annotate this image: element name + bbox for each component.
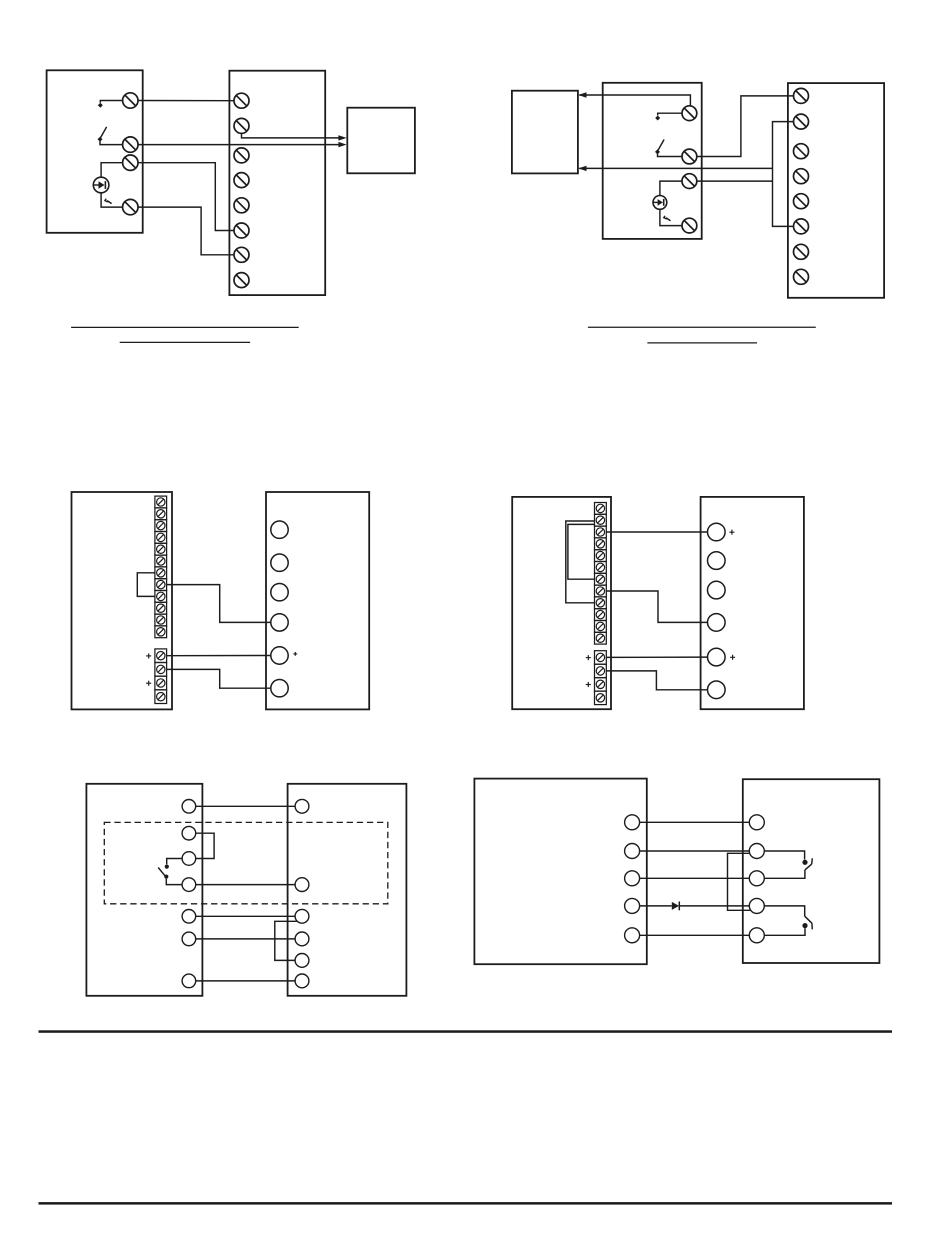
label + (power terminal 1) <box>586 655 591 660</box>
keypad circle terminal 2 <box>271 554 288 571</box>
wire: L5 to R5 <box>640 934 750 936</box>
caption underline (top-left, line 2) <box>120 341 250 343</box>
panel lower strip terminal cell 2 <box>155 663 167 677</box>
block terminal screw 8 <box>234 273 249 288</box>
switch 2 fixed contact dot <box>802 923 807 928</box>
device circle terminal R5 <box>749 928 764 943</box>
controller box (bottom-right diagram) <box>474 779 646 965</box>
panel upper strip terminal cell 12 <box>595 632 607 644</box>
controller circle terminal R4 <box>295 932 309 946</box>
wire: contact stub T1 <box>658 113 682 115</box>
panel upper strip terminal cell 10 <box>595 609 607 621</box>
block terminal screw 2 <box>234 118 249 133</box>
block terminal screw 1 <box>794 88 809 103</box>
keypad circle terminal 4 <box>708 614 726 632</box>
wire: switch to L4 <box>166 879 182 885</box>
switch fixed contact dot <box>165 865 169 869</box>
LED D1 indicator <box>93 177 109 193</box>
contact diamond of switch SW1 <box>98 137 103 142</box>
switch SW1 blade <box>100 127 107 139</box>
wire: L3 to R3 <box>640 877 750 879</box>
panel lower strip terminal cell 4 <box>595 691 607 705</box>
panel upper strip terminal cell 4 <box>595 538 607 550</box>
device circle terminal L2 <box>182 826 196 840</box>
block terminal screw 7 <box>794 244 809 259</box>
controller circle terminal R2 <box>295 878 309 892</box>
wire: device T4 to block T7 <box>138 207 234 255</box>
outer jumper wire: strip cell 2 to cell 9 <box>566 521 595 603</box>
keypad box <box>701 497 804 709</box>
arrowhead into power supply (top) <box>578 92 586 97</box>
terminal screw 3 (device) <box>123 155 138 170</box>
panel upper strip terminal cell 6 <box>595 562 607 574</box>
keypad circle terminal 6 <box>708 681 726 699</box>
device circle terminal L3 <box>182 852 196 866</box>
wire: common vertical net to block T2 and T6 <box>773 122 794 227</box>
panel upper strip terminal cell 3 <box>595 526 607 538</box>
keypad circle terminal 5 <box>708 648 726 666</box>
device circle terminal R1 <box>749 815 764 830</box>
device circle terminal L5 <box>182 910 196 924</box>
block terminal screw 2 <box>794 114 809 129</box>
power supply box <box>347 108 415 174</box>
panel upper strip terminal cell 11 <box>155 614 167 626</box>
wire: strip cell 3 to keypad circle 1 <box>606 531 707 533</box>
wire: strip cell 8 to keypad circle 4 <box>167 585 271 623</box>
device terminal screw 2 <box>682 149 697 164</box>
wire: device T1 to power supply <box>579 95 690 106</box>
wire: L1 to R1 <box>640 821 750 823</box>
keypad circle terminal 1 <box>271 521 288 538</box>
block terminal screw 1 <box>234 93 249 108</box>
wire: SW1 to device T2 <box>658 153 683 156</box>
terminal screw 2 (device) <box>123 137 138 152</box>
contact diamond of SW1 <box>655 149 660 154</box>
panel upper strip terminal cell 9 <box>595 597 607 609</box>
panel upper strip terminal cell 3 <box>155 520 167 532</box>
wire: LED cathode to terminal 4 <box>101 192 123 207</box>
controller circle terminal R6 <box>295 974 309 988</box>
wire: switch 2 to R5 <box>764 928 805 935</box>
keypad circle terminal 3 <box>271 584 288 601</box>
wire: R2 to tamper switch 1 <box>764 851 804 860</box>
panel lower strip terminal cell 4 <box>155 690 167 704</box>
panel lower strip terminal cell 1 <box>595 651 607 665</box>
control panel box (mid-right diagram) <box>512 497 611 709</box>
switch 2 blade <box>805 916 812 923</box>
jumper wire: R2 to R4 <box>728 853 751 910</box>
panel upper strip terminal cell 12 <box>155 626 167 638</box>
keypad circle terminal 2 <box>708 552 726 570</box>
switch moving contact dot <box>164 875 168 879</box>
device terminal screw 3 <box>682 174 697 189</box>
controller circle terminal L1 <box>625 815 640 830</box>
panel upper strip terminal cell 2 <box>155 508 167 520</box>
arrowhead into power supply (bottom) <box>578 166 586 171</box>
block terminal screw 5 <box>794 194 809 209</box>
block terminal screw 4 <box>234 173 249 188</box>
panel lower strip terminal cell 3 <box>155 676 167 690</box>
panel upper strip terminal cell 5 <box>155 543 167 555</box>
controller circle terminal L2 <box>625 844 640 859</box>
wire: block T2 jog to power supply <box>242 133 339 138</box>
device box <box>743 779 880 963</box>
controller circle terminal L3 <box>625 871 640 886</box>
wire: power + to keypad circle 5 <box>606 656 707 658</box>
device circle terminal R2 <box>749 844 764 859</box>
arrowhead into power supply (upper) <box>338 135 346 140</box>
wire: L2 to R2 <box>640 850 750 852</box>
wire: L5 to R3 <box>196 915 295 917</box>
LED light emission marks <box>663 216 670 221</box>
control module terminal block box <box>229 71 325 295</box>
wire: L1 to R1 <box>196 805 295 807</box>
tamper switch blade <box>158 868 165 877</box>
dashed option boundary <box>104 822 388 903</box>
controller circle terminal R1 <box>295 799 309 813</box>
control panel box (mid-left diagram) <box>72 492 173 709</box>
block terminal screw 3 <box>794 144 809 159</box>
wire: device T3 to common net <box>697 180 773 182</box>
horizontal rule (lower) <box>39 1202 893 1205</box>
device terminal screw 1 <box>682 106 697 121</box>
caption underline (top-left, line 1) <box>71 326 299 328</box>
wire: SW1 to terminal 2 <box>100 141 123 145</box>
panel upper strip terminal cell 1 <box>595 503 607 515</box>
inner jumper wire: strip cell 2 to cell 7 <box>568 524 595 579</box>
label + (power terminal 3) <box>146 681 151 686</box>
device circle terminal R4 <box>749 898 764 913</box>
panel upper strip terminal cell 8 <box>595 585 607 597</box>
wire: L4 to R2 <box>196 884 295 886</box>
label + (power terminal 3) <box>586 682 591 687</box>
device circle terminal R3 <box>749 871 764 886</box>
wire: switch 1 to R3 <box>764 870 805 878</box>
panel upper strip terminal cell 8 <box>155 579 167 591</box>
panel upper strip terminal cell 6 <box>155 555 167 567</box>
controller circle terminal L4 <box>625 898 640 913</box>
power supply box (top-right diagram) <box>512 91 578 174</box>
label + (power terminal 1) <box>146 653 151 658</box>
panel lower strip terminal cell 1 <box>155 649 167 663</box>
LED D1 indicator <box>653 196 667 210</box>
wire: device T1 to block T1 <box>138 100 234 102</box>
controller circle terminal R3 <box>295 909 309 923</box>
jumper wire: R3 to R5 <box>275 921 297 960</box>
exit device box (top-left diagram) <box>47 70 143 233</box>
LED light emission marks <box>104 199 111 204</box>
device circle terminal L6 <box>182 932 196 946</box>
block terminal screw 6 <box>794 219 809 234</box>
caption underline (top-right, line 2) <box>647 342 757 344</box>
block terminal screw 6 <box>234 223 249 238</box>
wire: power + to keypad circle 5 <box>167 655 271 657</box>
wire: R4 to tamper switch 2 <box>764 906 804 916</box>
wire: device T2 through block to power supply <box>138 144 339 146</box>
wire: device T3 to block T6 <box>138 163 234 231</box>
panel upper strip terminal cell 9 <box>155 591 167 603</box>
wire: switch contact to terminal 1 <box>100 101 122 103</box>
panel upper strip terminal cell 7 <box>595 573 607 585</box>
block terminal screw 4 <box>794 169 809 184</box>
terminal screw 4 (device) <box>123 199 138 214</box>
controller circle terminal R5 <box>295 954 309 968</box>
switch 1 fixed contact dot <box>802 860 807 865</box>
contact diamond <box>655 116 660 121</box>
wire: LED cathode to device T4 <box>660 210 682 226</box>
keypad circle terminal 4 <box>271 614 288 631</box>
wire: L3 to switch contact <box>167 859 182 865</box>
panel lower strip terminal cell 3 <box>595 678 607 692</box>
exit device box <box>603 83 702 239</box>
keypad circle terminal 5 <box>271 647 288 664</box>
block terminal screw 5 <box>234 198 249 213</box>
switch SW1 blade <box>658 140 665 152</box>
device circle terminal L4 <box>182 878 196 892</box>
wire: L6 to R4 <box>196 938 295 940</box>
terminal block box <box>788 83 884 298</box>
switch 1 blade tick <box>811 858 814 864</box>
panel upper strip terminal cell 1 <box>155 496 167 508</box>
device circle terminal L7 <box>182 974 196 988</box>
jumper wire: strip cell 7 to cell 9 <box>137 573 155 597</box>
jumper wire: L2 to L3 <box>196 833 214 858</box>
keypad circle terminal 6 <box>271 680 288 697</box>
device terminal screw 4 <box>682 218 697 233</box>
label + (keypad circle 1) <box>729 530 734 535</box>
keypad circle terminal 3 <box>708 581 726 599</box>
panel upper strip terminal cell 2 <box>595 514 607 526</box>
block terminal screw 3 <box>234 148 249 163</box>
panel upper strip terminal cell 11 <box>595 621 607 633</box>
contact diamond of request switch <box>98 103 103 108</box>
keypad box <box>266 492 369 709</box>
horizontal rule (upper) <box>39 1030 893 1033</box>
controller box <box>288 784 407 996</box>
caption underline (top-right, line 1) <box>588 326 816 328</box>
wire: diode to R4 <box>679 905 749 907</box>
wire: power - to keypad circle 6 <box>167 669 271 688</box>
keypad circle terminal 1 <box>708 523 726 541</box>
terminal screw 1 (device) <box>123 93 138 108</box>
device box (bottom-left diagram) <box>86 784 202 996</box>
wire: device T2 to block T1 <box>697 96 794 157</box>
block terminal screw 8 <box>794 269 809 284</box>
wire: device T3 to LED anode <box>660 181 682 195</box>
arrowhead into power supply (lower) <box>338 142 346 147</box>
controller circle terminal L5 <box>625 928 640 943</box>
panel upper strip terminal cell 5 <box>595 550 607 562</box>
device circle terminal L1 <box>182 800 196 814</box>
switch 2 blade tick <box>811 923 813 929</box>
wire: L4 to diode <box>640 905 672 907</box>
block terminal screw 7 <box>234 247 249 262</box>
panel upper strip terminal cell 10 <box>155 602 167 614</box>
switch 1 blade <box>805 864 812 870</box>
panel lower strip terminal cell 2 <box>595 664 607 678</box>
label + (keypad circle 5) <box>293 652 297 656</box>
label + (keypad circle 5) <box>730 655 735 660</box>
wire: strip cell 8 to keypad circle 4 <box>606 591 707 622</box>
wire: terminal 3 to LED anode <box>101 163 123 178</box>
panel upper strip terminal cell 4 <box>155 532 167 544</box>
panel upper strip terminal cell 7 <box>155 567 167 579</box>
wire: power supply to common net <box>579 167 772 169</box>
wire: L7 to R6 <box>196 980 295 982</box>
wire: power - to keypad circle 6 <box>606 671 707 690</box>
diode D1 <box>672 902 680 911</box>
